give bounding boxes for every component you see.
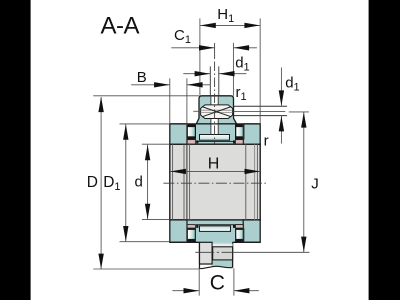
axial unit housing (teal, top center) (196, 96, 236, 124)
outer ring flange top-right (teal) (243, 124, 260, 144)
washer line above bottom bar (196, 224, 243, 226)
flange bottom edge line (170, 241, 260, 243)
needle roller bottom-left (187, 228, 196, 242)
black pillarbox right (369, 0, 400, 300)
needle roller top-left (black frame + gradient) (187, 124, 196, 140)
svg-text:r: r (264, 132, 269, 149)
oil hole wall lines above unit (210, 66, 219, 95)
needle roller bottom-right (235, 228, 244, 242)
oil channel white continuation below unit (211, 124, 218, 134)
dimension H line (170, 170, 260, 172)
needle roller top-right (235, 124, 244, 140)
H1 extension left (199, 18, 201, 95)
D extension top (93, 95, 199, 97)
lubrication boss (teal, bottom center, wavy broken-out bottom) (200, 242, 233, 268)
dimension C1 line (171, 47, 257, 49)
washer line below top bar (196, 140, 243, 142)
outer ring flange bottom-left (teal) (170, 220, 187, 242)
black pillarbox left (0, 0, 31, 300)
dimension C line (172, 290, 258, 292)
outer ring flange top-left (teal) (170, 124, 187, 144)
svg-text:D: D (87, 174, 98, 191)
dimension d line (147, 145, 149, 220)
lubrication boss right edge (232, 242, 234, 267)
C extension lines (199, 268, 234, 295)
needle cage bar top (gradient) (200, 135, 230, 141)
flange inner edge right x=243.2 (242, 124, 244, 242)
J extension top (289, 111, 309, 113)
svg-text:A-A: A-A (101, 13, 140, 40)
shaft washer lip line left (193, 110, 200, 112)
top row carrier strip (teal) between flanges (196, 124, 243, 144)
plastic cage block top-left (pink) (187, 140, 195, 144)
axial washer plane lines through octagon (201, 110, 233, 112)
plastic cage block top-right (pink) (235, 140, 243, 144)
dimension B line (131, 84, 210, 86)
B extension lines (170, 78, 187, 124)
bore cylinder body (grey) (170, 144, 260, 220)
svg-text:C: C (210, 271, 225, 294)
shaft washer lip lines right (234, 105, 288, 107)
flange inner edge / bore line x=186.9 (186, 124, 188, 220)
lubrication boss wavy bottom break line (200, 266, 233, 268)
cage nub bottom-right (233, 225, 235, 228)
d extension top (142, 143, 170, 145)
oil channel (white) in axial unit (211, 97, 219, 135)
light strip above lube hole (213, 244, 233, 247)
oil channel wall lines inside unit (211, 97, 218, 135)
dimension d1 center line (183, 73, 246, 75)
white notch under grub block (200, 265, 211, 269)
plastic cage block bottom-right (pink) (235, 225, 243, 229)
outer ring flange bottom-right (teal) (243, 220, 260, 242)
C1 extension right (232, 43, 234, 96)
lube hole centerline / J bottom extension (195, 251, 309, 253)
grub screw block (grey, in boss) (200, 242, 213, 264)
plastic cage block bottom-left (pink) (187, 225, 195, 229)
roller cross X (202, 107, 231, 117)
svg-text:B: B (137, 69, 147, 86)
bore interior relief lines right (245, 144, 247, 220)
dimension D1 line (125, 124, 127, 242)
flange top edge line (170, 123, 260, 125)
svg-text:d: d (135, 173, 143, 190)
bore interior relief lines left (172, 144, 174, 220)
lubrication boss left edge (199, 242, 201, 268)
dimension J line (303, 112, 305, 252)
axial roller octagon (201, 105, 233, 119)
dimension H1 line (200, 24, 260, 26)
needle cage bar bottom (gradient) (200, 226, 231, 232)
cage nub top-right (233, 140, 235, 143)
lube hole section (grey) (213, 247, 233, 260)
svg-text:H: H (208, 156, 220, 173)
D extension bottom (93, 268, 199, 270)
D1 extension bottom (120, 241, 170, 243)
D1 extension top (120, 123, 170, 125)
cage nub bottom-left (196, 225, 198, 228)
dimension r leader (280, 116, 282, 144)
main horizontal centerline (163, 182, 266, 184)
H1 extension right (259, 18, 261, 124)
dimension D line (100, 97, 102, 269)
svg-text:J: J (311, 176, 319, 193)
dimension d1 right leader (280, 67, 282, 105)
cage nub top-left (196, 140, 198, 143)
d extension bottom (142, 219, 170, 221)
vertical axis centerline (214, 43, 216, 59)
bottom row carrier strip (teal) between flanges (187, 220, 243, 242)
